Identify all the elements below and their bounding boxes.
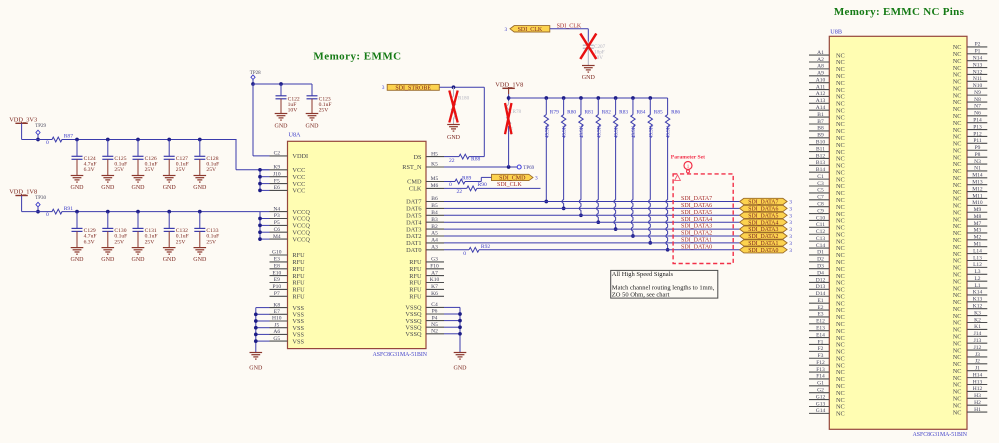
svg-text:R79: R79	[550, 109, 559, 115]
svg-text:3: 3	[789, 213, 792, 219]
svg-text:P12: P12	[973, 131, 982, 137]
svg-text:K13: K13	[973, 297, 983, 303]
svg-text:3: 3	[789, 220, 792, 226]
svg-text:RST_N: RST_N	[402, 164, 422, 171]
svg-text:N14: N14	[973, 55, 983, 61]
svg-text:SDI_DATA7: SDI_DATA7	[681, 196, 712, 202]
svg-text:F3: F3	[818, 353, 824, 359]
svg-text:25V: 25V	[206, 167, 216, 173]
svg-text:A8: A8	[817, 64, 824, 70]
svg-text:ASFC8G31MA-51BIN: ASFC8G31MA-51BIN	[373, 352, 428, 358]
svg-text:H2: H2	[974, 400, 981, 406]
svg-text:25V: 25V	[145, 167, 155, 173]
svg-text:E6: E6	[274, 185, 280, 191]
svg-text:K14: K14	[973, 290, 983, 296]
svg-text:22: 22	[457, 189, 463, 195]
svg-text:E3: E3	[274, 257, 280, 263]
svg-text:49.9K: 49.9K	[632, 125, 637, 138]
svg-text:B12: B12	[816, 153, 825, 159]
svg-text:M8: M8	[974, 214, 982, 220]
svg-text:B9: B9	[817, 133, 824, 139]
svg-text:SDI_DATA0: SDI_DATA0	[681, 244, 712, 250]
svg-text:GND: GND	[71, 257, 85, 263]
svg-text:R86: R86	[671, 109, 680, 115]
svg-text:25V: 25V	[319, 108, 329, 114]
svg-text:C10: C10	[816, 215, 825, 221]
svg-text:0: 0	[46, 140, 49, 146]
svg-text:L13: L13	[973, 255, 982, 261]
svg-text:B5: B5	[431, 203, 438, 209]
svg-text:E7: E7	[274, 309, 280, 315]
svg-text:C4: C4	[431, 302, 438, 308]
svg-text:VSSQ: VSSQ	[405, 331, 422, 338]
svg-text:G2: G2	[817, 388, 824, 394]
svg-text:C9: C9	[817, 208, 824, 214]
svg-text:49.9K: 49.9K	[667, 125, 672, 138]
svg-text:A12: A12	[816, 91, 826, 97]
svg-text:G5: G5	[273, 336, 280, 342]
svg-text:R78: R78	[513, 109, 522, 115]
svg-text:SDI_DATA5: SDI_DATA5	[748, 213, 778, 219]
svg-text:N8: N8	[974, 97, 981, 103]
svg-text:N10: N10	[973, 83, 983, 89]
svg-text:C3: C3	[817, 181, 824, 187]
svg-text:K8: K8	[273, 302, 280, 308]
svg-text:SDI_DATA1: SDI_DATA1	[748, 241, 778, 247]
svg-text:GND: GND	[163, 185, 177, 191]
svg-text:A5: A5	[431, 231, 438, 237]
svg-text:VCC: VCC	[292, 188, 305, 195]
svg-text:VSS: VSS	[292, 338, 304, 345]
svg-text:C5: C5	[817, 188, 824, 194]
svg-text:GND: GND	[101, 185, 115, 191]
svg-text:GND: GND	[454, 366, 468, 372]
svg-text:A1: A1	[817, 50, 824, 56]
svg-text:U8A: U8A	[289, 132, 302, 139]
svg-text:F1: F1	[818, 339, 824, 345]
svg-text:N2: N2	[431, 329, 438, 335]
svg-text:0: 0	[449, 182, 452, 188]
svg-text:K7: K7	[431, 284, 438, 290]
svg-text:DAT0: DAT0	[406, 247, 421, 254]
svg-text:C12: C12	[816, 229, 825, 235]
svg-text:G14: G14	[816, 408, 826, 414]
svg-text:DS: DS	[413, 154, 422, 161]
svg-text:TP30: TP30	[35, 196, 46, 201]
svg-text:M1: M1	[974, 242, 982, 248]
svg-text:C8: C8	[817, 201, 824, 207]
svg-text:Memory: EMMC: Memory: EMMC	[313, 51, 401, 63]
svg-text:SDI_CMD: SDI_CMD	[499, 176, 526, 182]
svg-text:NC: NC	[836, 411, 845, 418]
svg-text:49.9K: 49.9K	[615, 125, 620, 138]
svg-text:H12: H12	[973, 386, 983, 392]
svg-text:E9: E9	[274, 277, 280, 283]
svg-text:L14: L14	[973, 248, 982, 254]
svg-text:VDD_1V8: VDD_1V8	[495, 82, 523, 89]
svg-text:R88: R88	[471, 157, 481, 163]
svg-text:C11: C11	[816, 222, 825, 228]
svg-text:D14: D14	[816, 291, 826, 297]
svg-text:SDI_DATA6: SDI_DATA6	[681, 203, 712, 209]
svg-text:25V: 25V	[206, 239, 216, 245]
svg-text:SDI_DATA7: SDI_DATA7	[748, 200, 778, 206]
svg-text:R80: R80	[567, 109, 576, 115]
svg-text:N1: N1	[974, 166, 981, 172]
svg-text:P10: P10	[273, 284, 282, 290]
svg-text:GND: GND	[275, 124, 289, 130]
svg-text:R180: R180	[458, 95, 470, 101]
svg-text:GND: GND	[306, 124, 320, 130]
svg-text:M10: M10	[972, 200, 983, 206]
svg-text:TP28: TP28	[250, 71, 261, 76]
svg-text:VDDI: VDDI	[292, 153, 308, 160]
svg-text:J13: J13	[974, 338, 982, 344]
svg-text:49.9K: 49.9K	[545, 125, 550, 138]
svg-text:K12: K12	[973, 304, 983, 310]
svg-text:VDD_3V3: VDD_3V3	[9, 116, 37, 123]
svg-text:A10: A10	[816, 77, 826, 83]
svg-text:25V: 25V	[114, 167, 124, 173]
svg-text:F14: F14	[816, 374, 825, 380]
svg-text:E14: E14	[816, 332, 825, 338]
svg-text:J1: J1	[975, 366, 980, 372]
svg-text:25V: 25V	[114, 239, 124, 245]
svg-text:P5: P5	[274, 220, 280, 226]
svg-text:H3: H3	[974, 393, 981, 399]
svg-text:B1: B1	[817, 112, 824, 118]
svg-text:P1: P1	[975, 49, 981, 55]
svg-text:R89: R89	[462, 176, 472, 182]
svg-text:A7: A7	[431, 270, 438, 276]
svg-text:K6: K6	[431, 291, 438, 297]
svg-text:B10: B10	[816, 139, 825, 145]
svg-text:GND: GND	[163, 257, 177, 263]
svg-text:F10: F10	[430, 264, 439, 270]
svg-text:SDI_DATA6: SDI_DATA6	[748, 207, 778, 213]
svg-text:25V: 25V	[145, 239, 155, 245]
svg-text:P4: P4	[432, 315, 438, 321]
svg-text:Parameter Set: Parameter Set	[671, 154, 705, 160]
svg-text:E13: E13	[816, 326, 825, 332]
svg-text:K10: K10	[430, 277, 440, 283]
svg-text:10V: 10V	[288, 108, 298, 114]
svg-text:J5: J5	[274, 322, 279, 328]
svg-text:GND: GND	[132, 185, 146, 191]
svg-text:VDD_1V8: VDD_1V8	[9, 189, 37, 196]
svg-text:TP69: TP69	[523, 166, 534, 171]
svg-text:3: 3	[382, 85, 385, 91]
svg-text:G12: G12	[816, 394, 826, 400]
svg-text:A6: A6	[273, 329, 280, 335]
svg-text:C1: C1	[817, 174, 824, 180]
svg-text:F13: F13	[816, 367, 825, 373]
svg-text:K1: K1	[974, 324, 981, 330]
svg-text:C2: C2	[274, 151, 281, 157]
svg-text:K9: K9	[273, 165, 280, 171]
svg-text:SDI_DATA4: SDI_DATA4	[681, 217, 712, 223]
svg-text:P6: P6	[432, 309, 438, 315]
svg-text:E10: E10	[272, 270, 281, 276]
svg-text:C14: C14	[816, 243, 825, 249]
svg-text:GND: GND	[132, 257, 146, 263]
svg-text:H13: H13	[973, 379, 983, 385]
svg-text:B6: B6	[431, 196, 438, 202]
svg-text:0: 0	[463, 251, 466, 257]
svg-text:D13: D13	[816, 284, 826, 290]
svg-text:R91: R91	[64, 206, 74, 212]
svg-text:N5: N5	[431, 322, 438, 328]
svg-text:SDI_DATA2: SDI_DATA2	[681, 231, 712, 237]
svg-text:B2: B2	[431, 224, 438, 230]
svg-text:SDI_DATA0: SDI_DATA0	[748, 248, 778, 254]
svg-text:M14: M14	[972, 173, 983, 179]
svg-text:A4: A4	[431, 238, 438, 244]
svg-text:P8: P8	[975, 152, 981, 158]
svg-text:D4: D4	[817, 270, 824, 276]
svg-text:D3: D3	[817, 263, 824, 269]
svg-text:GND: GND	[193, 257, 207, 263]
svg-text:SDI_STROBE: SDI_STROBE	[395, 86, 431, 92]
svg-text:SDI_DATA4: SDI_DATA4	[748, 220, 778, 226]
svg-text:A9: A9	[817, 71, 824, 77]
svg-text:D1: D1	[817, 250, 824, 256]
svg-text:25V: 25V	[176, 239, 186, 245]
svg-text:E1: E1	[817, 298, 823, 304]
svg-text:N12: N12	[973, 69, 983, 75]
svg-text:C6: C6	[274, 227, 281, 233]
svg-text:E12: E12	[816, 319, 825, 325]
svg-text:G10: G10	[272, 250, 282, 256]
svg-text:3: 3	[789, 248, 792, 254]
svg-text:B11: B11	[816, 146, 825, 152]
svg-text:E8: E8	[274, 264, 280, 270]
svg-text:H1: H1	[974, 407, 981, 413]
svg-text:All High Speed Signals: All High Speed Signals	[612, 271, 674, 278]
svg-text:GND: GND	[101, 257, 115, 263]
svg-text:C13: C13	[816, 236, 825, 242]
svg-text:M9: M9	[974, 207, 982, 213]
svg-text:GND: GND	[447, 135, 461, 141]
svg-text:R85: R85	[654, 109, 663, 115]
svg-text:D2: D2	[817, 257, 824, 263]
svg-text:3: 3	[789, 206, 792, 212]
svg-text:H14: H14	[973, 372, 983, 378]
svg-text:B7: B7	[817, 119, 824, 125]
svg-text:R87: R87	[64, 134, 74, 140]
svg-text:E2: E2	[817, 305, 823, 311]
svg-text:TP29: TP29	[35, 124, 46, 129]
svg-text:E3: E3	[817, 312, 823, 318]
svg-text:6.3V: 6.3V	[84, 239, 95, 245]
svg-text:N3: N3	[974, 159, 981, 165]
svg-text:K5: K5	[431, 162, 438, 168]
svg-text:SDI_DATA3: SDI_DATA3	[748, 227, 778, 233]
svg-text:M2: M2	[974, 235, 982, 241]
svg-text:3: 3	[789, 234, 792, 240]
svg-text:3: 3	[789, 227, 792, 233]
svg-text:ZO 50 Ohm, see chart: ZO 50 Ohm, see chart	[612, 291, 670, 298]
svg-text:R90: R90	[478, 182, 488, 188]
svg-text:SDI_DATA1: SDI_DATA1	[681, 238, 712, 244]
svg-text:U8B: U8B	[830, 29, 842, 36]
svg-text:3: 3	[535, 176, 538, 182]
svg-text:M4: M4	[273, 234, 281, 240]
svg-text:P2: P2	[975, 42, 981, 48]
svg-text:25V: 25V	[176, 167, 186, 173]
svg-text:F12: F12	[816, 360, 825, 366]
svg-text:J12: J12	[974, 345, 982, 351]
svg-text:N11: N11	[973, 76, 983, 82]
svg-text:B14: B14	[816, 167, 825, 173]
svg-text:F5: F5	[274, 178, 280, 184]
svg-text:M5: M5	[431, 176, 439, 182]
svg-text:R83: R83	[619, 109, 628, 115]
svg-text:K2: K2	[974, 317, 981, 323]
svg-text:P14: P14	[973, 117, 982, 123]
svg-text:L3: L3	[974, 269, 980, 275]
svg-text:22: 22	[449, 158, 455, 164]
svg-text:N13: N13	[973, 62, 983, 68]
svg-text:D12: D12	[816, 277, 826, 283]
svg-text:H5: H5	[431, 151, 438, 157]
svg-text:P13: P13	[973, 124, 982, 130]
svg-text:N9: N9	[974, 90, 981, 96]
svg-text:N7: N7	[974, 104, 981, 110]
svg-text:R84: R84	[636, 109, 645, 115]
svg-text:P11: P11	[973, 138, 982, 144]
svg-text:GND: GND	[193, 185, 207, 191]
svg-text:J10: J10	[273, 171, 281, 177]
svg-text:G13: G13	[816, 401, 826, 407]
svg-text:SDI_DATA5: SDI_DATA5	[681, 210, 712, 216]
svg-text:P3: P3	[274, 213, 280, 219]
svg-text:49.9K: 49.9K	[597, 125, 602, 138]
svg-text:N6: N6	[974, 111, 981, 117]
svg-text:L12: L12	[973, 262, 982, 268]
svg-text:49.9K: 49.9K	[580, 125, 585, 138]
svg-text:L2: L2	[974, 276, 980, 282]
svg-text:3: 3	[504, 27, 507, 33]
svg-text:B3: B3	[431, 217, 438, 223]
svg-text:RFU: RFU	[409, 294, 422, 301]
svg-text:SDI_DATA3: SDI_DATA3	[681, 224, 712, 230]
svg-text:M6: M6	[431, 183, 439, 189]
svg-text:M3: M3	[974, 228, 982, 234]
svg-text:SDI_CLK: SDI_CLK	[518, 27, 543, 33]
svg-text:P9: P9	[975, 145, 981, 151]
svg-text:GND: GND	[582, 75, 596, 81]
svg-text:M7: M7	[974, 221, 982, 227]
svg-text:A3: A3	[431, 245, 438, 251]
svg-text:49.9K: 49.9K	[649, 125, 654, 138]
svg-text:3: 3	[789, 241, 792, 247]
svg-text:J3: J3	[975, 352, 980, 358]
svg-text:6.3V: 6.3V	[84, 167, 95, 173]
svg-text:A2: A2	[817, 57, 824, 63]
svg-text:C7: C7	[817, 195, 824, 201]
svg-text:GND: GND	[71, 185, 85, 191]
svg-text:SDI_DATA2: SDI_DATA2	[748, 234, 778, 240]
svg-text:G3: G3	[431, 257, 438, 263]
svg-text:P7: P7	[274, 291, 280, 297]
svg-text:B13: B13	[816, 160, 825, 166]
svg-text:L1: L1	[974, 283, 980, 289]
svg-text:A11: A11	[816, 84, 826, 90]
svg-text:G1: G1	[817, 381, 824, 387]
svg-text:NC: NC	[953, 409, 962, 416]
svg-text:R92: R92	[481, 244, 491, 250]
svg-text:B4: B4	[431, 210, 438, 216]
svg-text:H10: H10	[272, 316, 282, 322]
svg-text:ASFC8G31MA-51BIN: ASFC8G31MA-51BIN	[913, 432, 968, 438]
svg-text:49.9K: 49.9K	[563, 125, 568, 138]
svg-text:SDI_CLK: SDI_CLK	[557, 24, 582, 30]
svg-text:M13: M13	[972, 180, 983, 186]
svg-text:3: 3	[789, 200, 792, 206]
svg-text:R81: R81	[584, 109, 593, 115]
svg-text:R82: R82	[602, 109, 611, 115]
svg-text:K3: K3	[974, 310, 981, 316]
svg-text:N4: N4	[273, 206, 280, 212]
svg-text:VCCQ: VCCQ	[292, 236, 310, 243]
svg-text:M11: M11	[972, 193, 982, 199]
svg-text:GND: GND	[249, 366, 263, 372]
svg-text:Memory: EMMC NC Pins: Memory: EMMC NC Pins	[834, 6, 965, 18]
svg-text:RFU: RFU	[292, 294, 305, 301]
svg-text:J2: J2	[975, 359, 980, 365]
svg-text:M12: M12	[972, 186, 983, 192]
svg-text:A13: A13	[816, 98, 826, 104]
svg-text:A14: A14	[816, 105, 826, 111]
svg-text:F2: F2	[818, 346, 824, 352]
svg-text:J14: J14	[974, 331, 982, 337]
svg-text:0: 0	[46, 212, 49, 218]
svg-text:CLK: CLK	[409, 186, 422, 193]
svg-text:SDI_CLK: SDI_CLK	[497, 182, 522, 188]
svg-text:B8: B8	[817, 126, 824, 132]
